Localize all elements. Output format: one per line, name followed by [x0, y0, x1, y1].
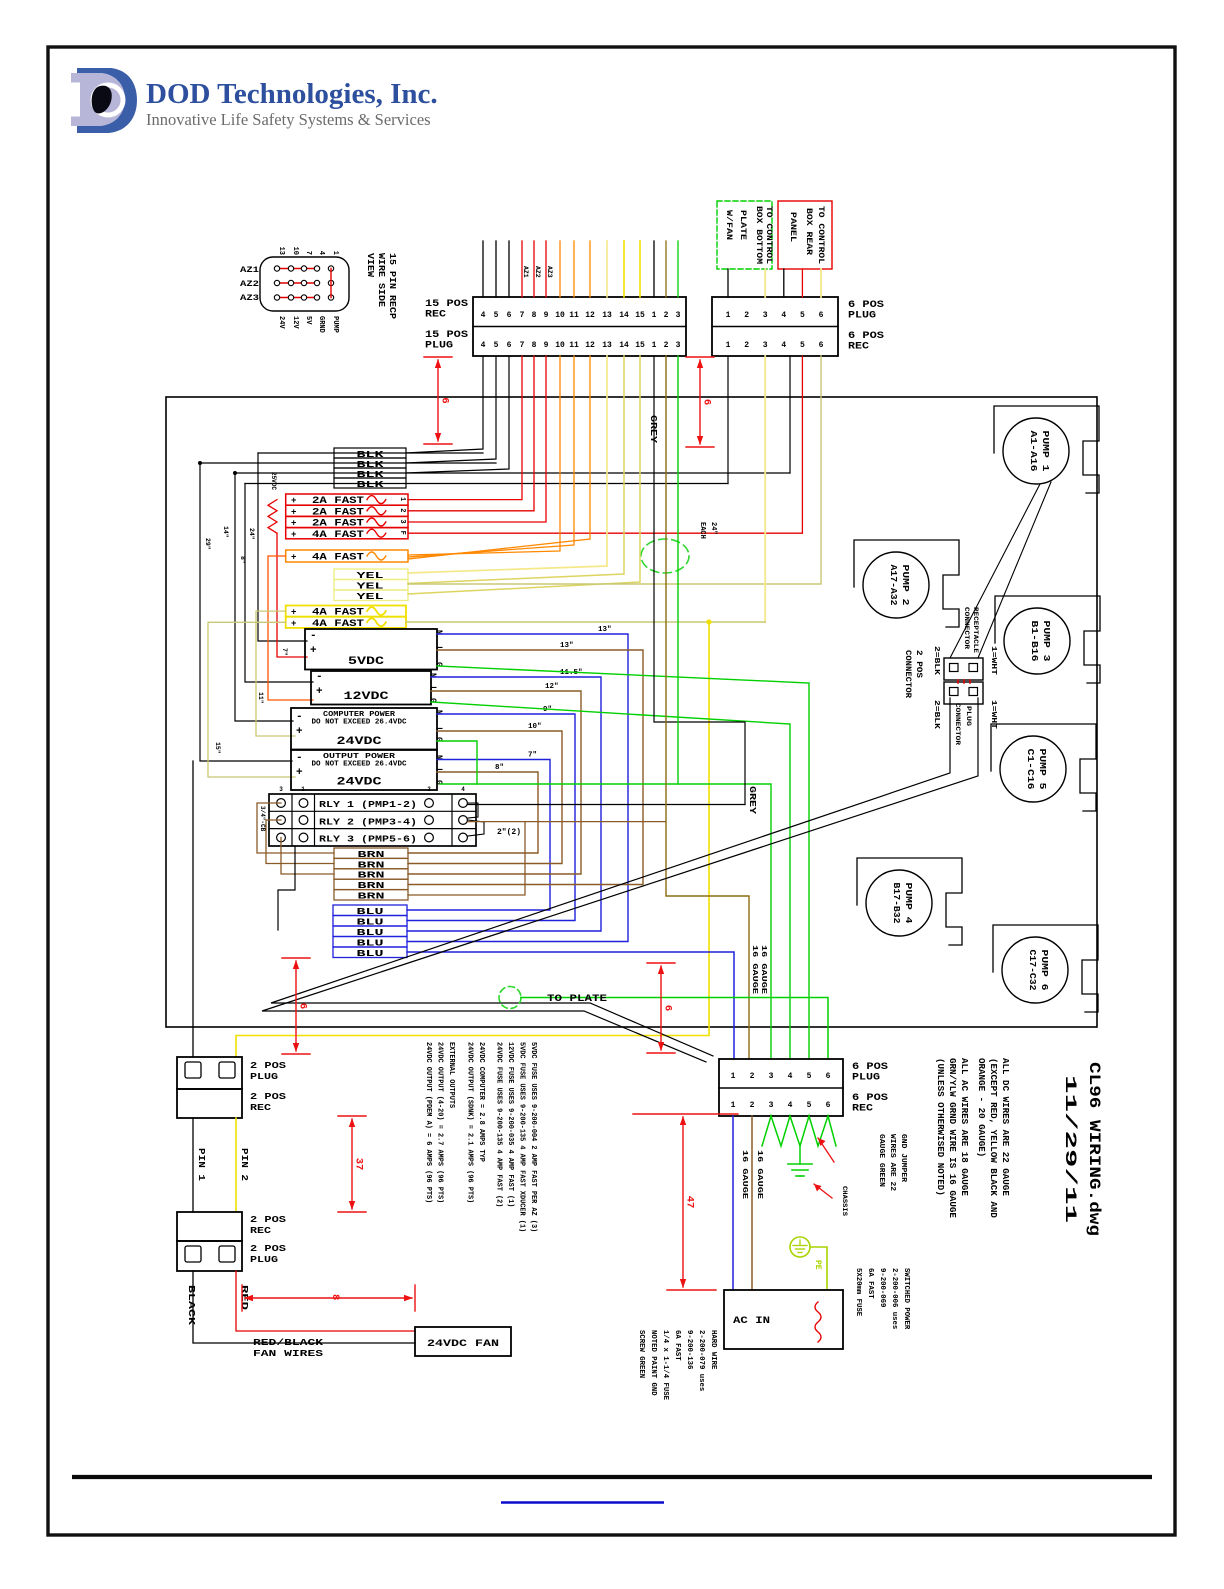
svg-text:TO CONTROL: TO CONTROL: [764, 206, 773, 264]
relay jumper hooks: [468, 803, 478, 818]
wires 15POS pins 4,5,6 down to BLK boxes: [406, 356, 483, 453]
svg-text:24VDC OUTPUT (PDEM A) = 6 AMPS: 24VDC OUTPUT (PDEM A) = 6 AMPS (96 PTS): [424, 1042, 432, 1203]
svg-text:5VDC FUSE USES 9-200-135 4 AMP: 5VDC FUSE USES 9-200-135 4 AMP FAST XDUC…: [518, 1042, 526, 1232]
red fan wire: [236, 1271, 415, 1331]
pale wire 6POS pin3 down to olive bus: [764, 356, 766, 622]
svg-text:4: 4: [481, 311, 486, 320]
svg-text:PLUG: PLUG: [848, 311, 876, 322]
svg-text:16 GAUGE: 16 GAUGE: [740, 1150, 748, 1200]
svg-text:24VDC: 24VDC: [337, 777, 383, 789]
svg-text:3: 3: [676, 311, 681, 320]
svg-text:11": 11": [257, 692, 264, 704]
blue N wires to BLU boxes: [407, 634, 628, 942]
wires from destination boxes to 6 POS plug: [727, 269, 729, 297]
svg-text:24V: 24V: [277, 316, 285, 329]
2 POS PLUG (left lower): [177, 1241, 242, 1271]
svg-text:B17-B32: B17-B32: [891, 883, 902, 924]
svg-text:SCREW GREEN: SCREW GREEN: [637, 1330, 645, 1378]
fuse 4A FAST (orange): [286, 550, 408, 562]
svg-text:1=WHT: 1=WHT: [989, 646, 997, 675]
svg-text:8": 8": [495, 764, 504, 772]
svg-text:EACH: EACH: [698, 522, 706, 539]
svg-text:14: 14: [619, 341, 629, 350]
svg-text:BRN: BRN: [358, 892, 385, 902]
svg-text:6: 6: [819, 311, 824, 320]
svg-text:5: 5: [807, 1072, 812, 1081]
svg-text:11: 11: [569, 341, 579, 350]
brown L wires to BRN boxes: [408, 650, 643, 885]
svg-text:6 POS: 6 POS: [852, 1093, 888, 1104]
wires above 15 POS connector: [482, 241, 484, 297]
relay terminal block RLY1-3: [269, 794, 476, 846]
svg-text:PUMP 2: PUMP 2: [900, 565, 911, 606]
svg-text:24VDC OUTPUT (SDNK) = 2.1 AMPS: 24VDC OUTPUT (SDNK) = 2.1 AMPS (96 PTS): [466, 1042, 474, 1203]
svg-text:PLUG: PLUG: [425, 341, 453, 352]
green G wires to bottom 6POS pins: [437, 666, 809, 1059]
svg-text:5X20mm FUSE: 5X20mm FUSE: [854, 1268, 862, 1317]
svg-text:YEL: YEL: [357, 592, 384, 602]
red mating marks: [957, 680, 959, 683]
svg-text:6 POS: 6 POS: [848, 300, 884, 311]
svg-text:10: 10: [291, 247, 299, 255]
svg-text:11: 11: [569, 311, 579, 320]
svg-text:AZ2: AZ2: [240, 280, 259, 289]
svg-text:-: -: [316, 671, 323, 683]
svg-text:5: 5: [807, 1101, 812, 1110]
svg-text:2: 2: [750, 1072, 755, 1081]
svg-text:7: 7: [520, 311, 525, 320]
svg-text:REC: REC: [250, 1225, 271, 1236]
pump motor PUMP5 C1-C16: [991, 724, 1096, 811]
leads pump1 to receptacle: [950, 484, 1040, 658]
pump motor PUMP2 A17-A32: [854, 540, 959, 627]
svg-text:CL96 WIRING.dwg: CL96 WIRING.dwg: [1085, 1062, 1103, 1236]
svg-text:+: +: [291, 619, 296, 629]
svg-text:6 POS: 6 POS: [852, 1062, 888, 1073]
2 POS PLUG (left upper): [177, 1057, 242, 1089]
svg-text:4: 4: [788, 1072, 793, 1081]
svg-text:1: 1: [398, 497, 406, 501]
svg-text:ALL DC WIRES ARE 22 GAUGE: ALL DC WIRES ARE 22 GAUGE: [1000, 1058, 1011, 1196]
svg-text:+: +: [316, 686, 323, 698]
svg-text:1: 1: [301, 786, 305, 793]
svg-text:14": 14": [222, 526, 229, 538]
svg-text:3: 3: [763, 311, 768, 320]
svg-text:CONNECTOR: CONNECTOR: [953, 703, 961, 746]
24VDC FAN box: [415, 1327, 511, 1356]
svg-text:3: 3: [769, 1072, 774, 1081]
fuses 4A FAST (yellow): [286, 606, 406, 617]
pump motor PUMP4 B17-B32: [857, 858, 962, 945]
svg-text:2 POS: 2 POS: [250, 1214, 286, 1225]
svg-text:DO NOT EXCEED 26.4VDC: DO NOT EXCEED 26.4VDC: [312, 761, 408, 769]
svg-text:2: 2: [744, 311, 749, 320]
svg-text:BLU: BLU: [357, 949, 384, 959]
svg-text:F: F: [398, 531, 406, 535]
svg-text:4A FAST: 4A FAST: [312, 530, 364, 541]
dimension 37in: [338, 1115, 366, 1117]
2 POS REC (left upper): [177, 1089, 242, 1118]
svg-text:AZ3: AZ3: [240, 294, 259, 303]
wires below bottom 6POS to AC IN: [732, 1116, 734, 1290]
svg-text:C17-C32: C17-C32: [1027, 950, 1038, 991]
svg-text:RLY 3 (PMP5-6): RLY 3 (PMP5-6): [319, 835, 417, 845]
svg-text:24VDC OUTPUT (4-20) = 2.7 AMPS: 24VDC OUTPUT (4-20) = 2.7 AMPS (96 PTS): [436, 1042, 444, 1203]
svg-text:PE: PE: [813, 1260, 822, 1270]
svg-text:7": 7": [281, 648, 288, 656]
svg-text:1: 1: [652, 311, 657, 320]
AC IN box: [724, 1290, 843, 1349]
svg-text:GREY: GREY: [747, 786, 757, 815]
2 POS receptacle connector: [944, 658, 983, 680]
wires 15POS pins 10,11,12 orange to fuse: [408, 356, 560, 555]
svg-text:C1-C16: C1-C16: [1025, 749, 1036, 790]
svg-text:Innovative Life Safety Systems: Innovative Life Safety Systems & Service…: [146, 110, 431, 129]
svg-text:(UNLESS OTHERWISED NOTED): (UNLESS OTHERWISED NOTED): [935, 1058, 946, 1196]
svg-text:A17-A32: A17-A32: [888, 565, 899, 606]
svg-text:24VDC: 24VDC: [337, 736, 383, 748]
svg-text:16 GAUGE: 16 GAUGE: [759, 945, 767, 995]
svg-text:PLUG: PLUG: [250, 1254, 278, 1265]
svg-text:REC: REC: [848, 342, 869, 353]
svg-text:5: 5: [800, 311, 805, 320]
svg-text:+: +: [296, 767, 303, 779]
svg-text:BLACK: BLACK: [186, 1285, 196, 1326]
red box TO CONTROL BOX REAR PANEL: [778, 201, 832, 269]
svg-text:(EXCEPT RED, YELLOW BLACK AND: (EXCEPT RED, YELLOW BLACK AND: [988, 1058, 999, 1218]
svg-text:3: 3: [769, 1101, 774, 1110]
svg-text:BLK: BLK: [357, 480, 385, 490]
svg-text:+: +: [291, 530, 296, 540]
svg-text:2 POS: 2 POS: [250, 1091, 286, 1102]
svg-text:REC: REC: [425, 310, 446, 321]
svg-text:HARD WIRE: HARD WIRE: [709, 1330, 717, 1370]
svg-text:6: 6: [662, 1005, 674, 1011]
svg-text:12": 12": [545, 683, 559, 691]
svg-text:REC: REC: [852, 1104, 873, 1115]
svg-text:6A FAST: 6A FAST: [866, 1268, 874, 1299]
svg-text:24VDC FAN: 24VDC FAN: [427, 1339, 499, 1350]
svg-text:4: 4: [781, 341, 786, 350]
svg-text:PUMP 6: PUMP 6: [1039, 950, 1050, 991]
relay left brown jumpers: [257, 803, 334, 853]
enclosure box outline: [166, 397, 1097, 1027]
pump motor PUMP6 C17-C32: [993, 925, 1098, 1012]
svg-text:B1-B16: B1-B16: [1029, 621, 1040, 662]
svg-text:3: 3: [398, 519, 406, 523]
power supply 12VDC: [311, 671, 431, 705]
svg-text:2"(2): 2"(2): [497, 828, 521, 837]
connector 6 POS PLUG/REC bottom: [719, 1059, 843, 1116]
BLK label boxes: [334, 448, 406, 458]
svg-text:CONNECTOR: CONNECTOR: [903, 650, 913, 699]
dimension 6in left: [282, 957, 310, 959]
svg-text:4: 4: [781, 311, 786, 320]
svg-text:PLUG: PLUG: [852, 1073, 880, 1084]
svg-text:DO NOT EXCEED 26.4VDC: DO NOT EXCEED 26.4VDC: [312, 719, 408, 727]
svg-text:15: 15: [635, 341, 645, 350]
svg-text:12: 12: [585, 341, 595, 350]
svg-text:RLY 2 (PMP3-4): RLY 2 (PMP3-4): [319, 817, 417, 827]
svg-text:GND JUMPER: GND JUMPER: [899, 1134, 907, 1183]
wire AC pair 1 to receptacle connector: [271, 698, 950, 1056]
yellow riser to bottom left connector: [236, 622, 709, 1057]
junction: [198, 461, 202, 465]
svg-text:9: 9: [544, 311, 549, 320]
svg-text:8: 8: [532, 341, 537, 350]
svg-text:4: 4: [461, 786, 465, 793]
svg-text:6: 6: [297, 1003, 309, 1009]
svg-text:2: 2: [664, 311, 669, 320]
svg-text:NOTED PAINT GND: NOTED PAINT GND: [649, 1330, 657, 1396]
svg-text:37: 37: [353, 1158, 365, 1171]
olive bus fuse row2 to pin3 riser: [406, 621, 765, 623]
svg-text:+: +: [291, 552, 296, 562]
svg-text:9-200-136: 9-200-136: [685, 1330, 693, 1369]
svg-text:15 POS: 15 POS: [425, 330, 468, 341]
svg-text:5: 5: [800, 341, 805, 350]
BLU label boxes: [333, 905, 407, 916]
svg-text:2=BLK: 2=BLK: [932, 646, 940, 676]
svg-text:16 GAUGE: 16 GAUGE: [755, 1150, 763, 1200]
svg-text:2 POS: 2 POS: [250, 1243, 286, 1254]
svg-text:ALL AC WIRES ARE 18 GAUGE: ALL AC WIRES ARE 18 GAUGE: [959, 1058, 970, 1196]
relay common down-step wire: [278, 846, 295, 930]
svg-text:L: L: [428, 686, 437, 691]
svg-text:3/4"-CB: 3/4"-CB: [259, 806, 266, 832]
svg-text:12V: 12V: [291, 316, 299, 329]
svg-text:1: 1: [731, 1072, 736, 1081]
green wire 15POS pin3 down to green bus: [677, 356, 679, 784]
svg-text:8": 8": [239, 556, 246, 564]
svg-text:GRND: GRND: [317, 316, 325, 333]
J1 red link col5: [330, 269, 332, 298]
svg-text:TO PLATE: TO PLATE: [547, 994, 607, 1005]
svg-text:5V: 5V: [304, 316, 312, 325]
svg-text:PIN 2: PIN 2: [239, 1148, 249, 1181]
dimension 6in mid: [647, 962, 675, 964]
svg-text:TO CONTROL: TO CONTROL: [816, 206, 825, 264]
svg-text:1: 1: [726, 341, 731, 350]
svg-text:2: 2: [398, 508, 406, 512]
power supply 5VDC: [305, 629, 437, 670]
svg-text:10: 10: [555, 311, 565, 320]
black bus wires through BLK boxes: [258, 452, 483, 454]
svg-text:12VDC FUSE USES 9-200-035 4 AM: 12VDC FUSE USES 9-200-035 4 AMP FAST (1): [506, 1042, 514, 1207]
svg-text:SWITCHED POWER: SWITCHED POWER: [902, 1268, 910, 1330]
connector 15 POS REC/PLUG: [473, 297, 686, 356]
connector J1 15-pin recp wire side view: [260, 257, 349, 311]
svg-text:7": 7": [528, 752, 537, 760]
svg-text:15": 15": [214, 742, 221, 754]
svg-text:13: 13: [602, 311, 612, 320]
2 POS plug connector: [944, 682, 983, 704]
svg-text:PLUG: PLUG: [250, 1071, 278, 1082]
svg-text:AZ3: AZ3: [546, 266, 553, 278]
svg-text:6 POS: 6 POS: [848, 331, 884, 342]
dimension 6in below 6 POS: [686, 356, 714, 358]
svg-text:AZ2: AZ2: [534, 266, 541, 278]
svg-text:8: 8: [329, 1294, 341, 1300]
svg-text:1: 1: [731, 1101, 736, 1110]
svg-text:WIRES ARE 22: WIRES ARE 22: [888, 1134, 896, 1191]
red fuse feed chain 25VDC: [268, 500, 277, 534]
svg-text:7: 7: [304, 251, 312, 255]
olive wire 6POS pin6 long through YEL: [408, 356, 821, 584]
wire red fuse4 to 5VDC +: [277, 533, 307, 657]
svg-text:RLY 1 (PMP1-2): RLY 1 (PMP1-2): [319, 800, 417, 810]
svg-text:PUMP: PUMP: [331, 316, 339, 333]
dimension 8in: [241, 1285, 243, 1311]
svg-text:24VDC COMPUTER = 2.8 AMPS TYP: 24VDC COMPUTER = 2.8 AMPS TYP: [477, 1042, 485, 1162]
svg-text:GAUGE GREEN: GAUGE GREEN: [877, 1134, 885, 1187]
svg-text:DOD Technologies, Inc.: DOD Technologies, Inc.: [146, 78, 438, 110]
PE protective earth symbol: [790, 1237, 810, 1257]
svg-text:4A FAST: 4A FAST: [312, 552, 364, 563]
svg-text:REC: REC: [250, 1102, 271, 1113]
svg-text:15 POS: 15 POS: [425, 299, 468, 310]
svg-text:5: 5: [494, 311, 499, 320]
svg-text:PIN 1: PIN 1: [196, 1148, 206, 1182]
BRN row5 tee wire: [408, 822, 525, 895]
green dashed loop marker 24in EACH: [641, 539, 689, 573]
svg-text:3: 3: [676, 341, 681, 350]
svg-text:CONNECTOR: CONNECTOR: [962, 607, 970, 650]
wire red 6POS pin5 long to fuse F: [408, 356, 802, 533]
svg-text:A1-A16: A1-A16: [1028, 431, 1039, 472]
svg-text:24": 24": [248, 528, 255, 540]
svg-text:BOX REAR: BOX REAR: [804, 208, 813, 255]
svg-text:VIEW: VIEW: [365, 253, 376, 277]
logo DOD Technologies: [71, 68, 137, 133]
svg-text:9-200-069: 9-200-069: [878, 1268, 886, 1307]
svg-text:4: 4: [481, 341, 486, 350]
svg-text:2: 2: [664, 341, 669, 350]
svg-text:25VDC: 25VDC: [270, 472, 277, 490]
svg-text:PUMP 3: PUMP 3: [1041, 621, 1052, 662]
wire relay row1 to grey riser: [468, 804, 745, 806]
svg-text:10": 10": [528, 723, 542, 731]
svg-text:7: 7: [520, 341, 525, 350]
green dashed box TO CONTROL BOX BOTTOM PLATE W/FAN: [717, 201, 772, 269]
svg-text:6: 6: [701, 399, 713, 405]
svg-text:24": 24": [709, 522, 717, 535]
svg-text:-: -: [310, 630, 317, 642]
svg-text:2: 2: [744, 341, 749, 350]
grey wire from 15POS pin1: [654, 356, 745, 805]
svg-text:PLATE: PLATE: [738, 210, 747, 240]
svg-text:AC IN: AC IN: [733, 1316, 770, 1327]
svg-text:12VDC: 12VDC: [344, 691, 390, 703]
svg-text:BOX BOTTOM: BOX BOTTOM: [754, 206, 763, 264]
svg-text:29": 29": [204, 538, 211, 550]
svg-text:13": 13": [560, 642, 574, 650]
svg-text:6: 6: [826, 1072, 831, 1081]
svg-text:5: 5: [494, 341, 499, 350]
wire orange fuse to 12VDC +: [268, 556, 313, 700]
svg-text:2: 2: [427, 786, 431, 793]
2 POS REC (left lower): [177, 1212, 242, 1241]
fuse block 2A/4A FAST (red): [286, 494, 408, 505]
relay terminal circles: [277, 799, 286, 808]
svg-text:-: -: [296, 711, 303, 723]
wires 15POS pins 13,14,15 to YEL boxes: [408, 356, 607, 573]
svg-text:16 GAUGE: 16 GAUGE: [750, 945, 758, 995]
svg-text:-: -: [296, 752, 303, 764]
svg-text:AZ1: AZ1: [522, 266, 529, 278]
svg-text:15: 15: [635, 311, 645, 320]
svg-text:4: 4: [788, 1101, 793, 1110]
dark brown wire 15POS pin2 to bottom 6POS pin2: [666, 356, 749, 1059]
svg-text:3: 3: [279, 786, 283, 793]
svg-text:1: 1: [652, 341, 657, 350]
svg-text:3: 3: [763, 341, 768, 350]
svg-text:FAN WIRES: FAN WIRES: [253, 1348, 323, 1359]
relay row2 wire to brown riser: [468, 821, 665, 823]
svg-text:1/4 x 1-1/4 FUSE: 1/4 x 1-1/4 FUSE: [661, 1330, 669, 1401]
left bus verticals to supply minus terminals: [258, 453, 307, 641]
J1 pin circles with red bus links: [277, 268, 317, 270]
svg-text:6: 6: [826, 1101, 831, 1110]
svg-text:6: 6: [507, 341, 512, 350]
svg-text:5VDC FUSE USES 9-200-004 2 AMP: 5VDC FUSE USES 9-200-004 2 AMP FAST PER …: [529, 1042, 537, 1232]
black fan wire: [193, 1271, 415, 1343]
PE wire: [810, 1247, 827, 1290]
svg-text:+: +: [310, 645, 317, 657]
dimension 6in below 15 POS: [424, 356, 452, 358]
YEL label boxes: [334, 569, 408, 580]
long wire to PIN1 2POS plug: [192, 761, 194, 1057]
power supply 24VDC output: [291, 750, 437, 790]
svg-text:W/FAN: W/FAN: [724, 210, 733, 240]
svg-text:15 PIN RECP: 15 PIN RECP: [387, 253, 398, 319]
blue 16 gauge wire BLU row5 to bottom 6POS pin1: [407, 952, 734, 1059]
chassis ground symbol: [799, 1146, 801, 1164]
svg-text:2-200-006 uses: 2-200-006 uses: [890, 1268, 898, 1329]
svg-text:GRN/YLW GRND WIRE IS 16 GAUGE: GRN/YLW GRND WIRE IS 16 GAUGE: [947, 1058, 958, 1218]
green ground jumper zigzag: [762, 1116, 836, 1146]
svg-text:11/29/11: 11/29/11: [1061, 1075, 1079, 1223]
svg-text:6: 6: [439, 397, 451, 403]
svg-text:9: 9: [544, 341, 549, 350]
svg-text:EXTERNAL OUTPUTS: EXTERNAL OUTPUTS: [447, 1042, 455, 1108]
svg-text:4: 4: [317, 251, 325, 255]
svg-text:PUMP 5: PUMP 5: [1037, 749, 1048, 790]
svg-text:13: 13: [602, 341, 612, 350]
pump motor PUMP1 A1-A16: [994, 406, 1099, 493]
svg-text:2=BLK: 2=BLK: [932, 700, 940, 730]
svg-text:13: 13: [277, 247, 285, 255]
svg-text:6: 6: [507, 311, 512, 320]
svg-text:12: 12: [585, 311, 595, 320]
wire AC pair 2 to receptacle connector: [262, 698, 978, 1062]
svg-text:1: 1: [726, 311, 731, 320]
power supply 24VDC computer: [291, 708, 437, 750]
svg-text:47: 47: [684, 1196, 696, 1209]
svg-text:2: 2: [750, 1101, 755, 1110]
svg-text:6: 6: [819, 341, 824, 350]
svg-text:1: 1: [331, 251, 339, 255]
dimension 47in: [633, 1113, 738, 1115]
svg-text:6A FAST: 6A FAST: [673, 1330, 681, 1361]
svg-text:PANEL: PANEL: [788, 212, 797, 242]
footer rule: [72, 1475, 1152, 1479]
svg-text:RED/BLACK: RED/BLACK: [253, 1337, 323, 1348]
green dashed ring TO PLATE: [499, 987, 521, 1009]
svg-text:5VDC: 5VDC: [348, 656, 385, 668]
junction yellow riser: [707, 620, 712, 625]
svg-text:8: 8: [532, 311, 537, 320]
